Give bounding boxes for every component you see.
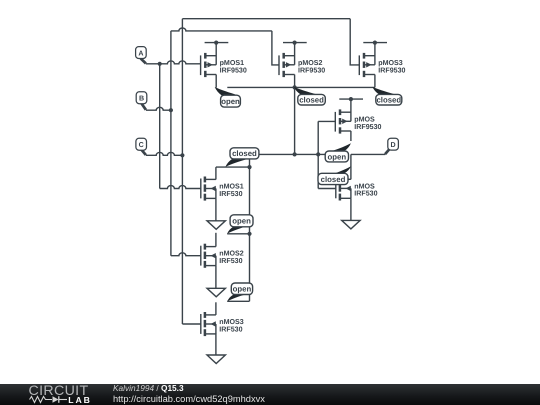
annotation nMOS2 state box [230,215,253,227]
node B label [136,92,147,104]
wire A leader [141,58,146,63]
svg-text:IRF530: IRF530 [219,190,242,198]
svg-text:open: open [232,217,251,226]
wire net-C to pMOS3 gate [350,19,359,65]
ground GND4 [342,220,360,229]
svg-text:closed: closed [299,96,324,105]
wire pMOS2 drain to node Y [294,75,296,155]
svg-text:B: B [139,95,144,103]
wire pMOS1 drain (open end) [215,75,217,88]
wire net-A to nMOS1 gate [160,186,201,189]
junction pMOS2 drain/rail [293,85,297,89]
annotation pMOS2 state box [298,94,326,105]
svg-text:closed: closed [376,96,401,105]
annotation nMOS1 state box [230,148,259,159]
wire net-C to nMOS3 gate [182,323,201,325]
wire pMOS4 gate [318,120,335,122]
svg-text:IRF9530: IRF9530 [298,66,325,74]
junction A/net-A [158,62,162,66]
wire node Y horizontal [250,153,331,155]
wire net-B vertical [170,31,172,256]
wire nMOS3 drain (open end) [215,302,217,315]
junction node Y / drain wire [247,165,251,169]
node C label [136,138,147,150]
wire B to net-B [146,107,171,110]
wire pMOS3 drain [374,75,376,88]
wire node Y stub 3 [227,300,249,302]
wire net-C top [182,18,350,20]
svg-text:D: D [391,141,396,149]
annotation pMOS1 state box [221,95,241,107]
annotation open nMOS2 pointer [227,227,245,234]
svg-text:A: A [138,50,143,58]
annotation pMOS3 state box [376,94,402,105]
svg-text:IRF9530: IRF9530 [220,66,247,74]
annotation closed nMOS4 pointer [335,166,351,173]
transistor pMOS3 M3 [359,41,387,78]
junction C/net-C [180,153,184,157]
junction node Y / gate link [316,152,320,156]
ground GND2 [207,288,225,297]
svg-text:IRF530: IRF530 [219,325,242,333]
junction node Y / pMOS2 branch [293,152,297,156]
annotation pMOS4 state box [325,151,348,162]
svg-text:IRF530: IRF530 [219,257,242,265]
wire pMOS4 drain (open end) [350,131,352,141]
wire node Y stub 2 [227,233,249,235]
wire C to net-C [146,152,182,155]
wire nMOS2 source [215,266,217,289]
wire D leader [385,149,390,155]
annotation open nMOS3 pointer [227,295,245,302]
wire nMOS1 source [215,198,217,220]
wire A to pMOS1 gate [146,61,201,64]
svg-text:open: open [221,97,240,106]
node A label [136,47,147,59]
wire nMOS2 drain (open end) [215,233,217,247]
annotation open pMOS1 pointer [215,87,239,96]
node D label [388,138,399,150]
footer bar [0,384,540,405]
svg-text:closed: closed [321,175,346,184]
wire nMOS4 source [350,198,352,220]
annotation nMOS3 state box [231,283,252,295]
wire B leader [141,103,146,110]
svg-text:open: open [233,285,252,294]
transistor pMOS2 M2 [279,41,307,78]
wire net-B to nMOS2 gate [171,253,201,256]
svg-text:IRF530: IRF530 [354,190,377,198]
transistor nMOS2 M6 [201,244,216,268]
annotation closed nMOS1 pointer [225,159,248,167]
wire net-A vertical [159,64,161,189]
wire nMOS3 source [215,333,217,354]
transistor nMOS3 M7 [201,312,216,336]
wire pMOS drain rail [227,86,375,88]
annotation closed pMOS3 pointer [372,87,395,95]
wire net-B top [171,28,272,31]
wire nMOS4 drain [350,154,352,179]
wire node Y vertical [249,154,251,301]
wire gate link vertical [317,121,319,188]
svg-text:open: open [328,152,347,161]
junction B/net-B [169,108,173,112]
svg-text:IRF9530: IRF9530 [354,123,381,131]
annotation nMOS4 state box [318,173,348,184]
svg-text:closed: closed [232,149,257,158]
transistor nMOS1 M5 [201,177,216,201]
wire C leader [141,149,146,155]
wire net-B to pMOS2 gate [272,31,280,65]
CircuitLab logo text [29,383,89,399]
transistor pMOS4 M4 [335,97,363,134]
author / title [113,383,184,393]
ground GND3 [207,355,225,364]
annotation closed pMOS2 pointer [294,87,317,95]
url [113,394,265,404]
CircuitLab logo resistor/diode glyph [29,395,69,404]
svg-text:C: C [139,141,144,149]
junction node Y / stub 2 [247,232,251,236]
wire nMOS4 gate [318,188,336,190]
ground GND1 [207,221,225,230]
svg-text:IRF9530: IRF9530 [378,66,405,74]
transistor pMOS1 M1 [201,41,229,78]
wire nMOS1 drain [215,167,217,179]
transistor nMOS4 M8 [336,176,351,200]
wire node D [351,153,385,155]
wire net-C vertical [181,19,183,324]
wire pMOS1/nMOS1 drain junction [216,166,250,168]
annotation open pMOS4 pointer [332,143,351,151]
